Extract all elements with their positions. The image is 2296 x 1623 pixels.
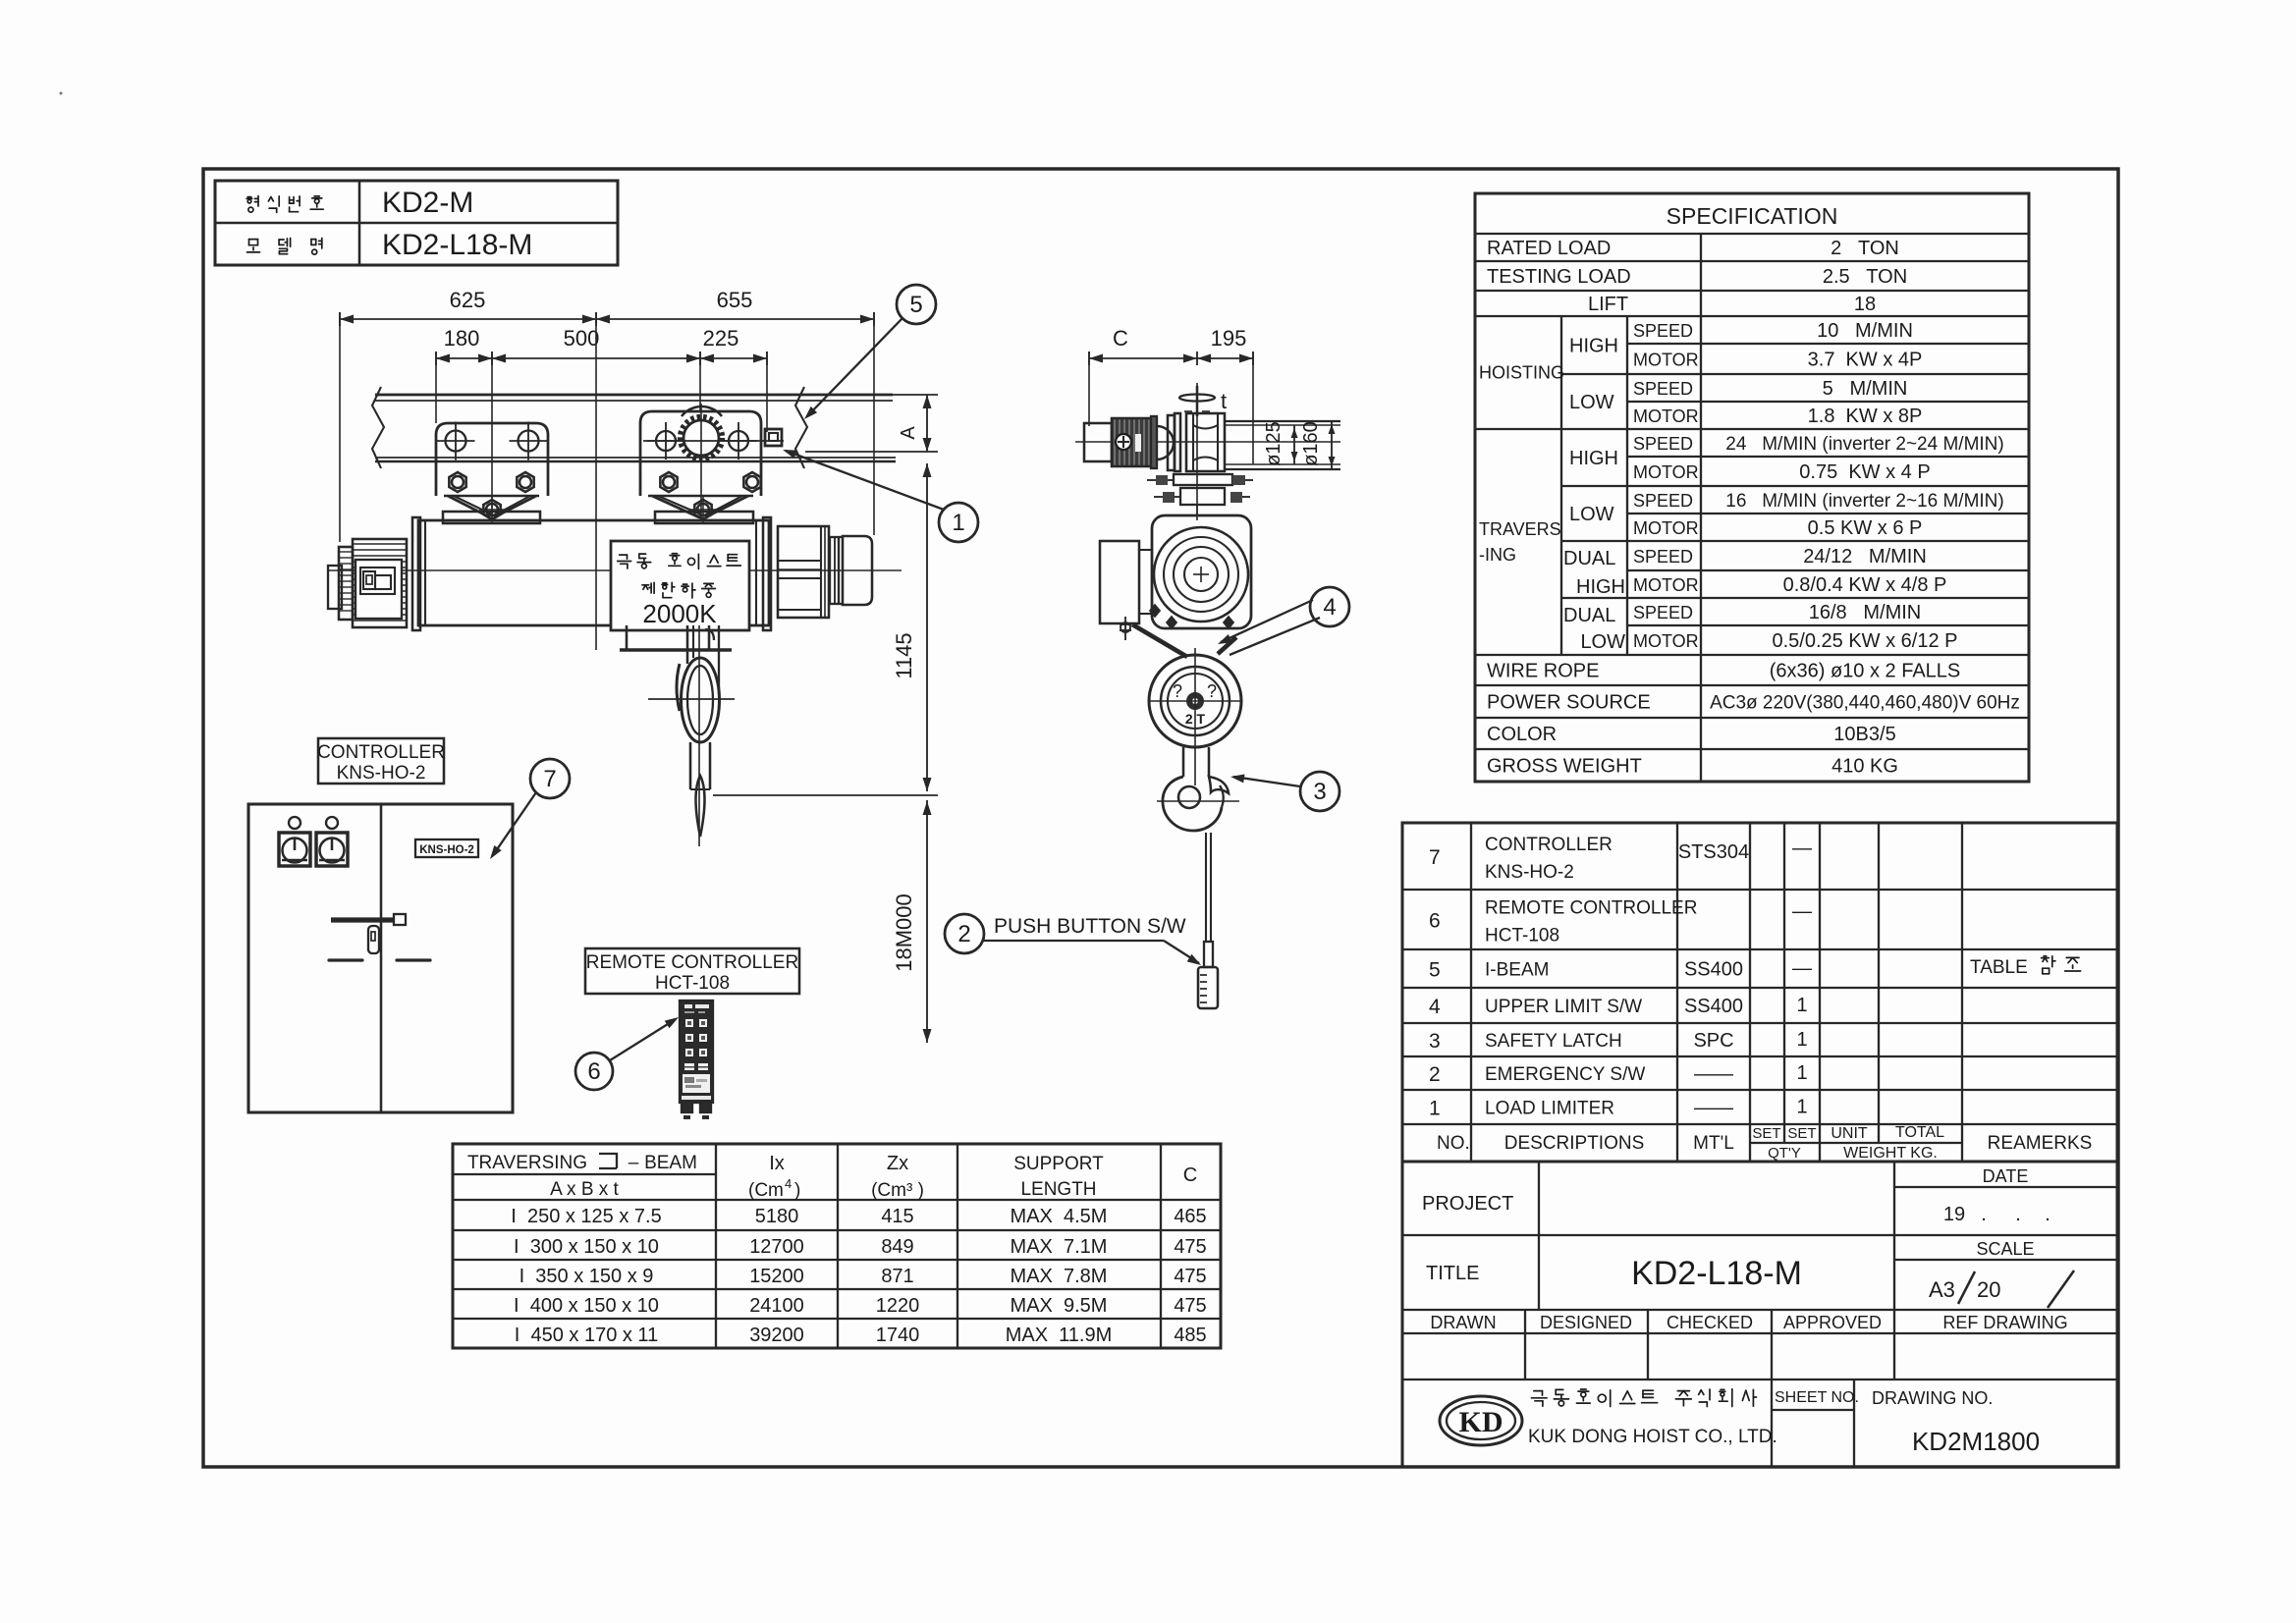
svg-text:KNS-HO-2: KNS-HO-2 [419, 844, 474, 856]
svg-text:KD: KD [1459, 1406, 1503, 1438]
svg-text:1.8 KW x 8P: 1.8 KW x 8P [1808, 406, 1923, 427]
svg-text:I 300 x 150 x 10: I 300 x 150 x 10 [514, 1236, 659, 1258]
svg-text:AC3ø 220V(380,440,460,480)V 60: AC3ø 220V(380,440,460,480)V 60Hz [1710, 693, 2020, 714]
svg-text:2.5 TON: 2.5 TON [1823, 266, 1907, 288]
svg-text:Zx: Zx [887, 1153, 908, 1174]
svg-text:TRAVERSING: TRAVERSING [467, 1153, 587, 1173]
svg-text:I-BEAM: I-BEAM [1485, 960, 1549, 981]
svg-text:24100: 24100 [749, 1295, 804, 1317]
svg-text:1: 1 [1796, 1029, 1807, 1051]
svg-text:DESIGNED: DESIGNED [1540, 1313, 1632, 1332]
svg-text:REMOTE CONTROLLER: REMOTE CONTROLLER [586, 952, 798, 973]
svg-text:GROSS WEIGHT: GROSS WEIGHT [1487, 756, 1642, 778]
svg-text:ø160: ø160 [1300, 421, 1322, 466]
svg-text:10 M/MIN: 10 M/MIN [1817, 320, 1913, 342]
svg-text:UNIT: UNIT [1831, 1125, 1868, 1142]
svg-text:410 KG: 410 KG [1831, 756, 1898, 778]
svg-text:LOAD LIMITER: LOAD LIMITER [1485, 1099, 1614, 1119]
svg-text:DESCRIPTIONS: DESCRIPTIONS [1504, 1133, 1645, 1154]
svg-text:SPECIFICATION: SPECIFICATION [1667, 203, 1838, 229]
svg-text:DATE: DATE [1983, 1166, 2029, 1186]
svg-text:——: —— [1694, 1098, 1733, 1119]
svg-text:?: ? [1207, 681, 1217, 701]
svg-text:SPEED: SPEED [1633, 434, 1693, 454]
svg-text:1: 1 [952, 510, 964, 536]
svg-text:MAX 9.5M: MAX 9.5M [1011, 1295, 1108, 1317]
svg-text:–: – [629, 1153, 639, 1173]
svg-text:): ) [794, 1180, 800, 1201]
svg-text:485: 485 [1174, 1325, 1206, 1346]
svg-text:I 250 x 125 x 7.5: I 250 x 125 x 7.5 [511, 1206, 661, 1227]
svg-text:—: — [1792, 958, 1812, 980]
svg-text:0.5/0.25 KW x 6/12 P: 0.5/0.25 KW x 6/12 P [1773, 630, 1958, 652]
svg-text:19: 19 [1943, 1204, 1965, 1225]
svg-text:3: 3 [1313, 779, 1326, 805]
svg-text:C: C [1183, 1164, 1197, 1186]
svg-text:180: 180 [444, 326, 480, 351]
svg-text:MOTOR: MOTOR [1633, 518, 1699, 538]
svg-text:MOTOR: MOTOR [1633, 351, 1699, 370]
svg-text:SPEED: SPEED [1633, 603, 1693, 622]
svg-text:-ING: -ING [1479, 545, 1516, 565]
svg-text:I 450 x 170 x 11: I 450 x 170 x 11 [515, 1325, 658, 1346]
svg-text:SCALE: SCALE [1976, 1239, 2034, 1259]
svg-text:475: 475 [1174, 1266, 1206, 1287]
svg-text:(6x36) ø10 x 2 FALLS: (6x36) ø10 x 2 FALLS [1770, 661, 1961, 682]
svg-text:5: 5 [1429, 959, 1441, 982]
svg-text:TRAVERS: TRAVERS [1479, 519, 1561, 539]
svg-text:MOTOR: MOTOR [1633, 462, 1699, 482]
svg-text:1: 1 [1796, 1097, 1807, 1118]
svg-text:CONTROLLER: CONTROLLER [317, 742, 445, 763]
svg-text:KNS-HO-2: KNS-HO-2 [1485, 862, 1574, 883]
svg-text:RATED LOAD: RATED LOAD [1487, 238, 1611, 259]
svg-text:4: 4 [785, 1176, 792, 1191]
svg-text:655: 655 [717, 288, 753, 312]
svg-text:MAX 7.8M: MAX 7.8M [1011, 1266, 1108, 1287]
svg-text:Ix: Ix [769, 1153, 785, 1174]
svg-text:6: 6 [1429, 910, 1441, 933]
svg-text:7: 7 [1429, 846, 1441, 869]
svg-text:TESTING LOAD: TESTING LOAD [1487, 266, 1631, 288]
svg-text:0.8/0.4 KW x 4/8 P: 0.8/0.4 KW x 4/8 P [1783, 574, 1947, 596]
svg-text:3.7 KW x 4P: 3.7 KW x 4P [1808, 350, 1923, 371]
svg-text:MOTOR: MOTOR [1633, 406, 1699, 426]
svg-text:39200: 39200 [749, 1325, 804, 1346]
svg-text:—: — [1792, 838, 1812, 859]
svg-text:HIGH: HIGH [1569, 448, 1618, 469]
svg-text:EMERGENCY S/W: EMERGENCY S/W [1485, 1064, 1645, 1085]
svg-text:POWER SOURCE: POWER SOURCE [1487, 692, 1651, 714]
svg-text:12700: 12700 [749, 1236, 804, 1258]
svg-text:1145: 1145 [892, 632, 916, 678]
svg-text:475: 475 [1174, 1295, 1206, 1317]
svg-text:TOTAL: TOTAL [1895, 1124, 1944, 1141]
svg-text:(Cm: (Cm [748, 1180, 784, 1201]
svg-text:225: 225 [703, 326, 739, 351]
svg-text:DUAL: DUAL [1563, 605, 1615, 626]
svg-text:.: . [2015, 1204, 2021, 1225]
svg-text:1220: 1220 [876, 1295, 920, 1317]
svg-text:SPEED: SPEED [1633, 547, 1693, 567]
svg-text:SS400: SS400 [1684, 996, 1743, 1017]
svg-text:LOW: LOW [1580, 631, 1625, 653]
svg-text:16/8 M/MIN: 16/8 M/MIN [1809, 602, 1921, 623]
svg-text:24/12 M/MIN: 24/12 M/MIN [1803, 546, 1927, 568]
svg-text:HIGH: HIGH [1569, 336, 1618, 357]
svg-text:195: 195 [1211, 326, 1247, 351]
svg-text:APPROVED: APPROVED [1783, 1313, 1882, 1332]
svg-text:SPC: SPC [1693, 1030, 1733, 1052]
svg-text:KD2-L18-M: KD2-L18-M [1631, 1255, 1802, 1292]
svg-text:2: 2 [1429, 1063, 1441, 1086]
svg-text:MT'L: MT'L [1693, 1133, 1734, 1154]
svg-text:SUPPORT: SUPPORT [1013, 1154, 1104, 1174]
svg-text:4: 4 [1323, 594, 1336, 621]
svg-text:7: 7 [543, 766, 556, 792]
svg-text:KNS-HO-2: KNS-HO-2 [337, 763, 426, 784]
svg-text:18: 18 [1854, 294, 1876, 315]
svg-text:0.75 KW x 4 P: 0.75 KW x 4 P [1799, 461, 1930, 483]
svg-text:?: ? [1173, 681, 1182, 701]
svg-text:COLOR: COLOR [1487, 724, 1557, 745]
svg-text:TABLE: TABLE [1970, 957, 2028, 978]
svg-text:WEIGHT KG.: WEIGHT KG. [1843, 1145, 1938, 1162]
svg-text:MAX 11.9M: MAX 11.9M [1006, 1325, 1113, 1346]
svg-text:20: 20 [1977, 1277, 2000, 1302]
svg-text:t: t [1221, 389, 1227, 413]
svg-text:6: 6 [587, 1058, 600, 1085]
svg-text:REF DRAWING: REF DRAWING [1942, 1313, 2067, 1332]
svg-text:HOISTING: HOISTING [1479, 363, 1564, 383]
svg-text:DUAL: DUAL [1563, 548, 1615, 569]
svg-text:DRAWN: DRAWN [1430, 1313, 1496, 1332]
svg-text:CHECKED: CHECKED [1667, 1313, 1753, 1332]
svg-text:1740: 1740 [876, 1325, 920, 1346]
svg-text:QT'Y: QT'Y [1768, 1145, 1801, 1162]
svg-text:I 400 x 150 x 10: I 400 x 150 x 10 [514, 1295, 659, 1317]
svg-text:625: 625 [450, 288, 486, 312]
svg-text:SET: SET [1752, 1125, 1780, 1142]
svg-text:A3: A3 [1929, 1277, 1955, 1302]
svg-text:475: 475 [1174, 1236, 1206, 1258]
svg-text:A x B x t: A x B x t [550, 1179, 619, 1200]
svg-text:(Cm³ ): (Cm³ ) [871, 1180, 924, 1201]
svg-text:MAX 4.5M: MAX 4.5M [1011, 1206, 1108, 1227]
svg-text:SPEED: SPEED [1633, 379, 1693, 399]
svg-text:BEAM: BEAM [644, 1153, 697, 1173]
svg-text:24 M/MIN (inverter 2~24 M/MI: 24 M/MIN (inverter 2~24 M/MIN) [1725, 434, 2003, 455]
svg-text:465: 465 [1174, 1206, 1206, 1227]
svg-text:1: 1 [1796, 1062, 1807, 1084]
svg-text:REAMERKS: REAMERKS [1988, 1133, 2093, 1154]
svg-text:KUK DONG HOIST CO., LTD.: KUK DONG HOIST CO., LTD. [1528, 1427, 1777, 1447]
svg-text:NO.: NO. [1437, 1133, 1470, 1154]
svg-text:UPPER LIMIT S/W: UPPER LIMIT S/W [1485, 997, 1642, 1017]
svg-text:HIGH: HIGH [1576, 576, 1625, 598]
svg-text:MOTOR: MOTOR [1633, 575, 1699, 595]
svg-text:2 TON: 2 TON [1831, 238, 1899, 259]
svg-text:5180: 5180 [755, 1206, 799, 1227]
svg-text:.: . [2045, 1204, 2050, 1225]
svg-text:SHEET NO.: SHEET NO. [1775, 1389, 1859, 1406]
svg-text:—: — [1792, 901, 1812, 923]
svg-text:0.5 KW x 6 P: 0.5 KW x 6 P [1808, 517, 1923, 539]
svg-text:5 M/MIN: 5 M/MIN [1823, 378, 1908, 400]
svg-text:849: 849 [881, 1236, 913, 1258]
svg-text:PUSH BUTTON S/W: PUSH BUTTON S/W [994, 915, 1186, 938]
svg-text:KD2M1800: KD2M1800 [1912, 1427, 2040, 1456]
svg-text:I 350 x 150 x 9: I 350 x 150 x 9 [519, 1266, 654, 1287]
svg-text:SAFETY LATCH: SAFETY LATCH [1485, 1031, 1622, 1052]
svg-text:871: 871 [881, 1266, 913, 1287]
svg-text:LENGTH: LENGTH [1020, 1179, 1096, 1200]
svg-text:HCT-108: HCT-108 [1485, 926, 1559, 947]
svg-text:10B3/5: 10B3/5 [1833, 724, 1895, 745]
svg-text:1: 1 [1796, 995, 1807, 1016]
svg-text:KD2-M: KD2-M [382, 187, 473, 219]
svg-text:MOTOR: MOTOR [1633, 631, 1699, 651]
svg-text:SET: SET [1787, 1125, 1816, 1142]
svg-text:15200: 15200 [749, 1266, 804, 1287]
svg-text:LIFT: LIFT [1588, 294, 1628, 315]
svg-text:3: 3 [1429, 1030, 1441, 1053]
svg-text:1: 1 [1429, 1098, 1441, 1120]
svg-text:A: A [898, 426, 919, 440]
svg-text:2000K: 2000K [642, 599, 717, 628]
svg-text:PROJECT: PROJECT [1422, 1193, 1513, 1215]
svg-text:C: C [1113, 326, 1128, 351]
svg-text:LOW: LOW [1569, 504, 1614, 525]
svg-text:.: . [1981, 1204, 1987, 1225]
svg-text:MAX 7.1M: MAX 7.1M [1011, 1236, 1108, 1258]
svg-text:WIRE ROPE: WIRE ROPE [1487, 661, 1599, 682]
svg-text:16 M/MIN (inverter 2~16 M/MI: 16 M/MIN (inverter 2~16 M/MIN) [1725, 491, 2003, 512]
svg-text:STS304: STS304 [1678, 841, 1749, 863]
svg-text:ø125: ø125 [1263, 421, 1285, 466]
svg-text:SS400: SS400 [1684, 959, 1743, 981]
svg-text:2: 2 [957, 921, 970, 947]
svg-text:KD2-L18-M: KD2-L18-M [382, 229, 532, 261]
svg-text:DRAWING NO.: DRAWING NO. [1872, 1388, 1993, 1408]
svg-text:500: 500 [564, 326, 600, 351]
svg-text:TITLE: TITLE [1426, 1263, 1479, 1284]
svg-text:LOW: LOW [1569, 392, 1614, 413]
svg-text:HCT-108: HCT-108 [655, 973, 730, 994]
svg-text:SPEED: SPEED [1633, 321, 1693, 341]
svg-text:415: 415 [881, 1206, 913, 1227]
svg-text:5: 5 [909, 292, 922, 318]
svg-text:REMOTE CONTROLLER: REMOTE CONTROLLER [1485, 898, 1697, 919]
svg-text:CONTROLLER: CONTROLLER [1485, 835, 1613, 855]
svg-text:18M000: 18M000 [892, 893, 916, 972]
svg-text:——: —— [1694, 1063, 1733, 1085]
svg-text:SPEED: SPEED [1633, 491, 1693, 511]
svg-text:4: 4 [1429, 996, 1441, 1018]
